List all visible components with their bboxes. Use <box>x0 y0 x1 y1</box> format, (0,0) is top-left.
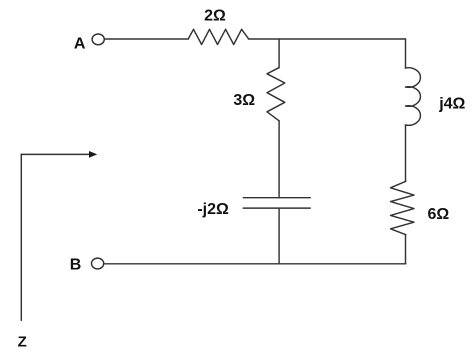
wire resistor R1 to top-right corner <box>248 38 405 40</box>
wire top-right corner down to inductor <box>405 39 407 68</box>
wire node to resistor 3ohm <box>278 39 280 68</box>
svg-text:6Ω: 6Ω <box>428 206 450 223</box>
wire inductor to resistor 6ohm <box>405 125 407 181</box>
svg-text:A: A <box>74 35 86 52</box>
resistor 3ohm <box>267 68 285 121</box>
svg-text:3Ω: 3Ω <box>233 92 255 109</box>
svg-text:j4Ω: j4Ω <box>438 96 465 113</box>
impedance arrow head <box>89 151 97 158</box>
resistor 2ohm <box>188 29 248 44</box>
impedance arrow horizontal line <box>21 153 90 155</box>
svg-text:Z: Z <box>18 334 27 351</box>
capacitor -j2ohm <box>243 197 310 199</box>
svg-text:2Ω: 2Ω <box>204 8 226 25</box>
svg-text:-j2Ω: -j2Ω <box>197 201 229 218</box>
terminal B <box>92 258 104 269</box>
svg-text:B: B <box>70 257 82 274</box>
impedance arrow vertical line <box>20 154 22 320</box>
bottom wire B to right branch <box>104 263 406 265</box>
wire A to resistor R1 <box>105 38 189 40</box>
wire resistor 6ohm to bottom wire <box>405 235 407 264</box>
inductor j4ohm <box>406 68 421 126</box>
resistor 6ohm <box>391 181 415 234</box>
wire resistor 3ohm to capacitor <box>278 121 280 198</box>
wire capacitor to bottom <box>278 208 280 264</box>
terminal A <box>92 34 104 45</box>
